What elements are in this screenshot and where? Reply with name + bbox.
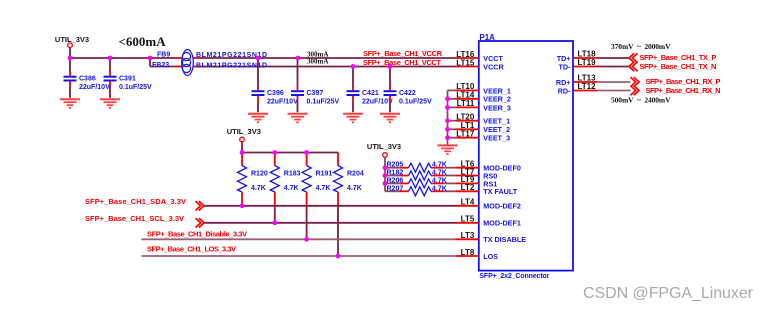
svg-text:R207: R207 [387, 185, 404, 192]
svg-text:R191: R191 [316, 171, 333, 178]
wire pullup rail y152.5 [242, 152, 338, 154]
svg-text:LT8: LT8 [461, 248, 475, 257]
pin LT14 VEER_2 [456, 91, 511, 104]
svg-text:TX DISABLE: TX DISABLE [483, 235, 526, 244]
svg-text:LT3: LT3 [461, 231, 475, 240]
svg-text:FB9: FB9 [157, 52, 170, 59]
capacitor C391 [104, 58, 153, 98]
svg-text:MOD-DEF1: MOD-DEF1 [483, 219, 521, 228]
svg-text:FB23: FB23 [152, 62, 169, 69]
svg-text:R206: R206 [387, 177, 404, 184]
svg-text:4.7K: 4.7K [316, 185, 331, 192]
svg-text:SFP+_Base_CH1_SCL_3.3V: SFP+_Base_CH1_SCL_3.3V [85, 214, 184, 223]
connector P1A box [479, 33, 573, 280]
svg-text:SFP+_Base_CH1_Disable_3.3V: SFP+_Base_CH1_Disable_3.3V [147, 230, 247, 239]
capacitor C397 [291, 58, 340, 112]
wire VEER VEET rail x447.5 [448, 90, 456, 144]
offpage chevron RX_P [631, 77, 640, 86]
svg-text:SFP+_Base_CH1_VCCT: SFP+_Base_CH1_VCCT [363, 58, 441, 67]
svg-text:SFP+_Base_CH1_SDA_3.3V: SFP+_Base_CH1_SDA_3.3V [85, 197, 186, 206]
svg-text:VEET_3: VEET_3 [483, 134, 510, 143]
svg-text:<600mA: <600mA [119, 34, 167, 49]
svg-text:SFP+_Base_CH1_RX_N: SFP+_Base_CH1_RX_N [646, 86, 721, 95]
pin LT10 VEER_1 [456, 82, 511, 95]
svg-text:R205: R205 [387, 162, 404, 169]
resistor R120 [238, 153, 268, 206]
svg-text:R183: R183 [284, 171, 301, 178]
svg-text:4.7K: 4.7K [432, 170, 447, 177]
svg-text:4.7K: 4.7K [432, 177, 447, 184]
ground under C396 [248, 114, 268, 123]
pin LT19 TD- [559, 58, 629, 71]
offpage chevron TX_P [629, 53, 638, 62]
svg-text:C422: C422 [399, 90, 416, 97]
svg-text:LT19: LT19 [578, 58, 597, 67]
svg-text:CSDN @FPGA_Linuxer: CSDN @FPGA_Linuxer [583, 285, 754, 302]
resistor R191 [302, 153, 332, 240]
ferrite bead FB23 [152, 50, 267, 76]
svg-text:LT12: LT12 [578, 82, 597, 91]
power P1 UTIL_3V3 [55, 35, 89, 48]
capacitor C386 [64, 58, 111, 98]
wire pullup rail x385 [384, 168, 386, 192]
ground under C421 [343, 114, 363, 123]
svg-text:C391: C391 [119, 75, 136, 82]
pin LT11 VEER_3 [456, 99, 511, 112]
resistor R204 [334, 153, 364, 257]
wire power stem P2 [241, 142, 243, 153]
svg-text:UTIL_3V3: UTIL_3V3 [55, 35, 89, 44]
svg-text:22uF/10V: 22uF/10V [79, 84, 110, 91]
svg-text:TX FAULT: TX FAULT [483, 187, 517, 196]
pin LT3 TX DISABLE [456, 231, 527, 244]
capacitor C422 [384, 67, 433, 113]
pin LT15 VCCR [456, 58, 505, 71]
svg-text:LT17: LT17 [456, 130, 475, 139]
svg-text:SFP+_Base_CH1_TX_N: SFP+_Base_CH1_TX_N [639, 62, 716, 71]
svg-text:R204: R204 [347, 171, 364, 178]
pin LT1 VEET_2 [456, 121, 511, 134]
svg-text:UTIL_3V3: UTIL_3V3 [227, 127, 261, 136]
svg-text:0.1uF/25V: 0.1uF/25V [399, 99, 432, 106]
wire power stem P3 [384, 157, 386, 167]
svg-text:22uF/10V: 22uF/10V [362, 99, 393, 106]
svg-text:500mV ~ 2400mV: 500mV ~ 2400mV [611, 95, 671, 104]
power P2 UTIL_3V3 [227, 127, 261, 142]
pin LT9 RS1 [456, 175, 498, 188]
svg-text:VCCR: VCCR [483, 62, 504, 71]
pin LT18 TD+ [557, 50, 629, 63]
pin LT20 VEET_1 [456, 113, 511, 126]
capacitor C421 [347, 67, 394, 113]
svg-text:LT2: LT2 [461, 183, 475, 192]
pin LT2 TX FAULT [456, 183, 518, 196]
svg-text:300mA: 300mA [307, 58, 328, 66]
wire main rail y58 [70, 57, 456, 59]
resistor R182 [385, 170, 456, 181]
svg-text:4.7K: 4.7K [284, 185, 299, 192]
svg-text:LT11: LT11 [457, 99, 475, 108]
svg-text:C386: C386 [79, 75, 96, 82]
resistor R206 [385, 177, 456, 188]
pin LT5 MOD-DEF1 [456, 215, 521, 228]
svg-text:MOD-DEF2: MOD-DEF2 [483, 202, 521, 211]
ground under VEET rail [438, 145, 458, 154]
wire SCL y222.8 [204, 222, 456, 224]
pin LT17 VEET_3 [456, 130, 511, 143]
ground under C391 [100, 99, 120, 108]
ferrite bead FB9 [157, 52, 267, 61]
ground under C422 [380, 114, 400, 123]
svg-text:4.7K: 4.7K [432, 185, 447, 192]
pin LT7 RS0 [456, 167, 498, 180]
svg-text:VEER_3: VEER_3 [483, 103, 511, 112]
svg-text:4.7K: 4.7K [347, 185, 362, 192]
ground under C397 [288, 114, 308, 123]
pin LT6 MOD-DEF0 [456, 160, 521, 173]
svg-text:LT4: LT4 [461, 198, 475, 207]
resistor R207 [385, 185, 456, 196]
pin LT13 RD+ [556, 74, 631, 87]
svg-text:LOS: LOS [483, 252, 498, 261]
svg-text:LT5: LT5 [461, 215, 475, 224]
svg-text:SFP+_2x2_Connector: SFP+_2x2_Connector [479, 273, 549, 280]
wire LOS y256 [142, 255, 456, 257]
svg-text:C396: C396 [267, 90, 284, 97]
svg-text:RD-: RD- [558, 86, 571, 95]
svg-text:SFP+_Base_CH1_LOS_3.3V: SFP+_Base_CH1_LOS_3.3V [147, 244, 236, 253]
svg-text:R182: R182 [387, 170, 404, 177]
resistor R183 [270, 153, 300, 223]
offpage chevron SCL [196, 218, 205, 227]
pin LT4 MOD-DEF2 [456, 198, 521, 211]
resistor R205 [385, 162, 456, 173]
wire lower branch y66.5 [150, 58, 456, 67]
svg-text:370mV ~ 2000mV: 370mV ~ 2000mV [611, 42, 671, 51]
power P3 UTIL_3V3 [367, 142, 401, 157]
svg-text:0.1uF/25V: 0.1uF/25V [119, 84, 152, 91]
svg-text:C397: C397 [307, 90, 324, 97]
wire Disable y239.3 [142, 238, 456, 240]
offpage chevron RX_N [631, 86, 640, 95]
ground under C386 [60, 99, 80, 108]
svg-text:BLM21PG221SN1D: BLM21PG221SN1D [196, 62, 267, 69]
svg-text:0.1uF/25V: 0.1uF/25V [307, 99, 340, 106]
capacitor C396 [252, 58, 299, 112]
svg-text:TD-: TD- [559, 62, 572, 71]
wire SDA y205.8 [204, 205, 456, 207]
offpage chevron TX_N [629, 62, 638, 71]
svg-text:4.7K: 4.7K [251, 185, 266, 192]
wire power stem P1 [69, 48, 71, 59]
svg-text:UTIL_3V3: UTIL_3V3 [367, 142, 401, 151]
offpage chevron SDA [196, 201, 205, 210]
svg-text:R120: R120 [251, 171, 268, 178]
svg-text:C421: C421 [362, 90, 379, 97]
svg-text:22uF/10V: 22uF/10V [267, 99, 298, 106]
svg-text:4.7K: 4.7K [432, 162, 447, 169]
pin LT16 VCCT [456, 50, 504, 63]
pin LT8 LOS [456, 248, 499, 261]
pin LT12 RD- [558, 82, 631, 95]
svg-text:LT15: LT15 [456, 58, 475, 67]
